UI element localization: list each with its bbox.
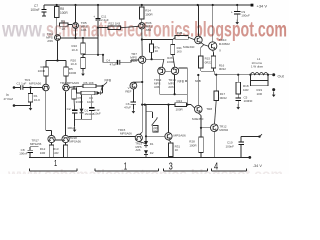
wire TR7 col down bbox=[140, 63, 144, 134]
svg-text:1: 1 bbox=[54, 158, 57, 168]
wire TR4 collector bbox=[57, 41, 59, 61]
svg-text:0R22: 0R22 bbox=[220, 96, 227, 100]
transistor TR15 bbox=[118, 128, 146, 152]
svg-text:Vr1: Vr1 bbox=[153, 129, 157, 133]
transistor TR16 bias bbox=[145, 104, 186, 140]
svg-text:A06: A06 bbox=[131, 59, 137, 63]
svg-text:100NF: 100NF bbox=[244, 99, 253, 103]
svg-text:1K: 1K bbox=[155, 49, 159, 53]
svg-text:1K: 1K bbox=[175, 148, 179, 152]
resistor R24 bbox=[175, 99, 187, 111]
svg-text:C2: C2 bbox=[67, 107, 71, 111]
resistor R4 bbox=[38, 65, 49, 84]
svg-text:TR8: TR8 bbox=[206, 107, 212, 111]
wire TR4 base row y38 bbox=[61, 37, 99, 39]
bracket numbers bbox=[54, 158, 218, 172]
capacitor C7 bbox=[31, 4, 47, 16]
svg-text:47uF: 47uF bbox=[124, 106, 131, 110]
svg-text:A56: A56 bbox=[47, 39, 53, 43]
wire diff branch bbox=[46, 59, 66, 67]
svg-text:10-K: 10-K bbox=[71, 62, 77, 66]
resistor R16 bbox=[211, 50, 226, 71]
transistor TR18 bbox=[62, 135, 81, 143]
svg-text:+: + bbox=[231, 10, 233, 14]
resistor R6 bbox=[83, 81, 96, 88]
svg-text:330R: 330R bbox=[76, 100, 84, 104]
capacitor C4 bbox=[102, 54, 139, 67]
wire TR1 collector drop bbox=[46, 91, 52, 136]
svg-text:MPSA56: MPSA56 bbox=[30, 142, 42, 146]
terminal input In bbox=[4, 86, 16, 107]
wire TR9 emitter node bbox=[201, 43, 208, 46]
wire mirror to TR15 base bbox=[69, 136, 135, 138]
resistor R13 bbox=[53, 143, 68, 158]
wire mirror emitters bbox=[160, 75, 188, 96]
resistor R10a vertical bbox=[72, 86, 76, 110]
svg-text:D1: D1 bbox=[150, 142, 154, 146]
svg-text:A06: A06 bbox=[154, 85, 160, 89]
svg-text:A06: A06 bbox=[136, 148, 141, 152]
transistor TR13 bbox=[154, 67, 165, 89]
transistor TR2 bbox=[60, 81, 79, 91]
wire input to TR1 base bbox=[23, 86, 43, 88]
capacitor C2 bbox=[67, 107, 92, 130]
svg-text:47 KHZ: 47 KHZ bbox=[4, 97, 14, 101]
capacitor C9 bbox=[231, 5, 250, 20]
svg-text:1: 1 bbox=[124, 161, 127, 173]
transistor TR10 output bbox=[209, 5, 231, 53]
svg-text:10R: 10R bbox=[243, 88, 249, 92]
svg-text:0R22: 0R22 bbox=[219, 67, 226, 71]
diode D2 bbox=[144, 141, 154, 148]
wire -34V bottom rail bbox=[29, 156, 250, 158]
svg-text:MJ4502: MJ4502 bbox=[219, 42, 230, 46]
wire y55 row bbox=[83, 54, 103, 56]
transistor TR14 bbox=[168, 67, 178, 89]
svg-text:R25: R25 bbox=[177, 31, 183, 35]
wire VAS emitter row bbox=[146, 58, 164, 67]
resistor R8 bbox=[55, 5, 69, 34]
resistor R12 bbox=[40, 143, 54, 158]
capacitor C10 bbox=[225, 134, 262, 157]
svg-text:MPSA56: MPSA56 bbox=[70, 139, 82, 143]
resistor R9 bbox=[60, 20, 73, 31]
svg-text:TR2 MPSA06: TR2 MPSA06 bbox=[60, 81, 79, 85]
wire mirror tie bbox=[55, 139, 62, 141]
svg-text:10R: 10R bbox=[40, 151, 46, 155]
svg-text:www.: www. bbox=[1, 19, 46, 42]
svg-text:10-K: 10-K bbox=[72, 48, 78, 52]
svg-text:C1 1uF: C1 1uF bbox=[17, 81, 27, 85]
svg-text:Out: Out bbox=[278, 75, 285, 79]
svg-text:10R: 10R bbox=[53, 151, 59, 155]
svg-text:10-K: 10-K bbox=[34, 98, 41, 102]
svg-text:REF: REF bbox=[125, 90, 131, 94]
wire mirror bases bbox=[165, 70, 171, 72]
terminal speaker return bbox=[272, 88, 276, 97]
svg-text:NFB: NFB bbox=[195, 79, 201, 83]
svg-text:R9: R9 bbox=[61, 20, 65, 24]
capacitor C1 bbox=[15, 81, 27, 90]
terminal Out bbox=[272, 73, 284, 78]
wire NFB column bbox=[186, 68, 188, 106]
svg-text:+34 V: +34 V bbox=[257, 3, 268, 8]
resistor R25 bbox=[175, 31, 195, 49]
svg-text:10uF: 10uF bbox=[94, 112, 101, 116]
resistor R31 bbox=[169, 140, 181, 158]
transistor TR5 bbox=[73, 5, 88, 38]
svg-text:A56: A56 bbox=[146, 28, 152, 32]
wire TR14 to NFB column bbox=[179, 67, 188, 69]
transistor TR4 bbox=[46, 32, 60, 43]
resistor R22 bbox=[97, 21, 139, 29]
svg-text:4: 4 bbox=[214, 161, 218, 173]
transistor TR1 bbox=[25, 78, 50, 91]
svg-text:10R: 10R bbox=[257, 92, 263, 96]
transistor TR8 bbox=[187, 105, 213, 121]
wire output line bbox=[214, 74, 272, 76]
node NFB left bbox=[96, 79, 112, 91]
svg-text:100R: 100R bbox=[38, 69, 46, 73]
pcb bracket markers bbox=[30, 169, 247, 172]
resistor R19 bbox=[250, 74, 269, 96]
capacitor C8 bbox=[19, 147, 38, 158]
svg-text:100uF: 100uF bbox=[241, 13, 250, 17]
svg-text:-34 V: -34 V bbox=[253, 164, 263, 168]
ground R20 bbox=[81, 71, 85, 76]
svg-text:100R: 100R bbox=[69, 71, 77, 75]
svg-text:www.schematicelectronics.blogs: www.schematicelectronics.blogspot.com bbox=[7, 166, 283, 174]
resistor R10 bbox=[72, 38, 86, 54]
svg-text:A06: A06 bbox=[168, 85, 174, 89]
resistor R18 bbox=[236, 74, 249, 94]
ground C9 bbox=[235, 20, 239, 25]
terminal +34V bbox=[251, 3, 268, 8]
svg-text:MJE350: MJE350 bbox=[192, 117, 204, 121]
svg-text:3: 3 bbox=[169, 161, 173, 173]
svg-text:MPSA06: MPSA06 bbox=[120, 132, 132, 136]
ground C5 bbox=[236, 104, 240, 110]
inductor L1 bbox=[249, 57, 268, 76]
svg-text:100nF: 100nF bbox=[225, 144, 234, 148]
svg-text:100R: 100R bbox=[60, 11, 68, 15]
wire TR2 base to R6 bbox=[69, 86, 83, 87]
capacitor C6 bbox=[124, 89, 136, 110]
svg-text:100R: 100R bbox=[189, 143, 197, 147]
node top rail junctions bbox=[56, 4, 239, 6]
resistor R26 bbox=[167, 40, 182, 68]
wire input return bbox=[14, 105, 31, 107]
ground C2 bbox=[73, 119, 77, 132]
resistor R5 bbox=[64, 67, 77, 84]
ground C6 bbox=[132, 109, 136, 114]
svg-text:NFB: NFB bbox=[105, 79, 112, 83]
svg-text:100R: 100R bbox=[145, 13, 153, 17]
capacitor C12 bbox=[89, 108, 101, 119]
watermark www.schematicelectronics.blogspot.com bbox=[1, 19, 287, 42]
resistor R28 bbox=[189, 113, 203, 157]
transistor VREF bbox=[125, 82, 136, 93]
wire to VREF bbox=[133, 81, 142, 83]
svg-text:+: + bbox=[93, 15, 95, 19]
resistor R20 bbox=[71, 55, 86, 71]
svg-text:100nF: 100nF bbox=[19, 152, 27, 156]
faint bottom watermark bbox=[7, 166, 283, 182]
transistor TR12 output bbox=[200, 101, 229, 158]
wire emitter junction bbox=[201, 71, 215, 75]
diode D3 bbox=[144, 150, 154, 157]
transistor TR7 bbox=[130, 52, 146, 63]
capacitor C11 bbox=[93, 5, 109, 55]
svg-text:100R: 100R bbox=[167, 60, 174, 64]
node -34V terminal bbox=[248, 156, 262, 168]
wire TR2 collector drop bbox=[65, 91, 67, 136]
svg-text:MJE340: MJE340 bbox=[183, 45, 195, 49]
svg-text:10nF: 10nF bbox=[87, 100, 94, 104]
wire bias column bbox=[145, 105, 147, 141]
wire C12 lead bbox=[91, 95, 93, 108]
capacitor C3 bbox=[87, 86, 103, 104]
resistor R7a bbox=[150, 40, 160, 60]
svg-text:R24: R24 bbox=[177, 99, 183, 103]
svg-text:R6 10K: R6 10K bbox=[84, 81, 95, 85]
resistor R15 bbox=[199, 45, 213, 72]
svg-text:47uF: 47uF bbox=[110, 63, 117, 67]
wire TR8 collector bbox=[197, 74, 199, 106]
svg-text:R22 1K8: R22 1K8 bbox=[109, 21, 121, 25]
svg-text:D2: D2 bbox=[150, 151, 154, 155]
resistor R14 bbox=[140, 5, 154, 23]
resistor R7 bbox=[76, 87, 96, 104]
resistor R17 bbox=[214, 74, 227, 101]
wire to driver R25 bbox=[142, 38, 175, 40]
transistor TR17 bbox=[30, 135, 55, 146]
svg-text:A06: A06 bbox=[81, 28, 87, 32]
trimmer VR1 bbox=[146, 112, 158, 133]
ground input bbox=[29, 106, 33, 111]
svg-text:MJ802: MJ802 bbox=[219, 128, 228, 132]
svg-text:100nF: 100nF bbox=[31, 8, 40, 12]
node NFB right bbox=[178, 79, 201, 83]
svg-text:MPSA56: MPSA56 bbox=[29, 81, 41, 85]
wire TR6 down bbox=[141, 29, 143, 56]
transistor TR6 bbox=[139, 21, 153, 32]
wire +34V top rail bbox=[44, 4, 252, 6]
resistor R1 bbox=[28, 88, 41, 106]
transistor TR9 driver bbox=[188, 5, 202, 44]
diode D1 bbox=[80, 95, 95, 119]
svg-text:1K0: 1K0 bbox=[177, 50, 182, 54]
capacitor C5 bbox=[236, 94, 253, 104]
svg-text:1N4148: 1N4148 bbox=[85, 112, 95, 116]
svg-text:MPSA06: MPSA06 bbox=[174, 133, 186, 137]
svg-text:1 W diam: 1 W diam bbox=[251, 65, 264, 69]
wire y105 row bbox=[142, 104, 175, 106]
svg-text:NFB: NFB bbox=[178, 79, 184, 83]
svg-text:100R: 100R bbox=[176, 107, 184, 111]
